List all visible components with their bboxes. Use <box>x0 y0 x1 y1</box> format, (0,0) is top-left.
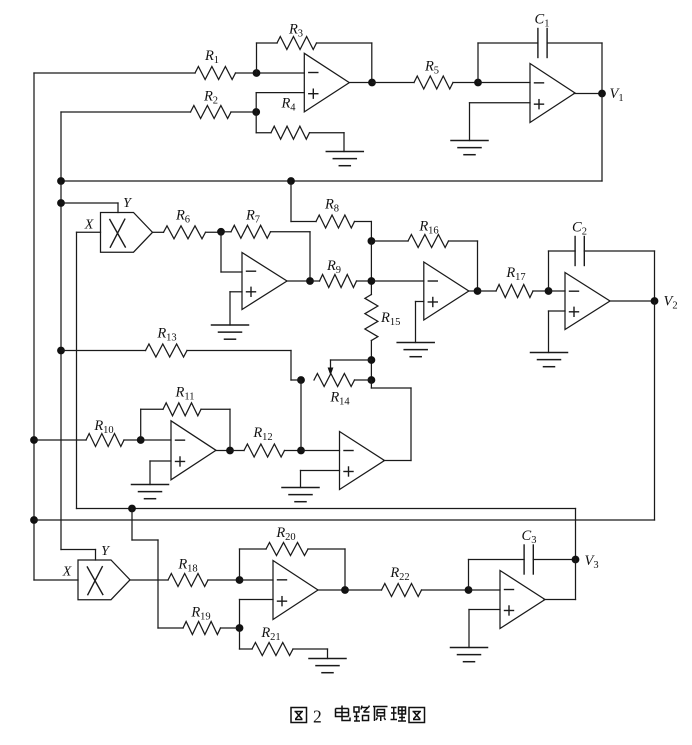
wire: U4 + to ground <box>416 302 424 343</box>
node: U5 inverting input <box>545 287 553 295</box>
node: V1 bus to R8 <box>287 177 295 185</box>
svg-text:2: 2 <box>313 707 322 727</box>
wire: R9 run <box>310 280 371 282</box>
node: Y input tap for multiplier M1 <box>57 199 65 207</box>
svg-text:R8: R8 <box>324 197 339 215</box>
wire: R21 branch <box>240 628 328 659</box>
wire: V2 rail left vertical (x=34) <box>33 73 35 580</box>
svg-text:V3: V3 <box>585 553 599 571</box>
label C3 <box>522 528 537 546</box>
node: U8 out/R20 <box>341 586 349 594</box>
label Y (M2) <box>101 544 111 559</box>
svg-text:R16: R16 <box>418 219 438 237</box>
resistor R10 <box>86 434 124 447</box>
svg-text:R3: R3 <box>288 22 303 40</box>
wire: M1 Y input <box>61 203 118 213</box>
wire: U4 output <box>469 290 478 292</box>
wire: U6 - stub <box>141 439 171 441</box>
svg-text:R13: R13 <box>156 326 176 344</box>
label R16 <box>418 219 438 237</box>
svg-text:X: X <box>62 565 72 580</box>
label C2 <box>572 220 587 238</box>
wire: U9 output <box>544 560 576 600</box>
svg-text:R19: R19 <box>190 605 210 623</box>
wire: R17 run <box>478 290 549 292</box>
label R14 <box>329 390 350 408</box>
wire: U9 + to ground <box>469 610 500 648</box>
node V1 <box>598 90 606 98</box>
label R17 <box>505 265 525 283</box>
svg-text:R17: R17 <box>505 265 525 283</box>
wire: C3 feedback left <box>469 560 525 591</box>
wire: R16 run <box>371 241 477 291</box>
svg-text:R18: R18 <box>177 557 197 575</box>
capacitor C1 <box>538 29 547 58</box>
node: R8/R16 junction <box>368 237 376 245</box>
node: R14 right terminal <box>368 376 376 384</box>
node: U9 inverting input <box>465 586 473 594</box>
wire: U2 + to ground <box>470 103 531 141</box>
wire: R2 run <box>61 111 256 113</box>
wire: U7 + to ground <box>301 471 340 488</box>
resistor R1 <box>195 67 236 80</box>
resistor R22 <box>382 584 422 597</box>
wire: R13 run <box>61 351 301 381</box>
capacitor C3 <box>524 545 533 574</box>
wire: R20 feedback <box>240 549 346 590</box>
wire: R7 feedback <box>221 232 310 281</box>
label C1 <box>535 12 550 30</box>
op-amp U2 (integrator) <box>530 64 575 123</box>
wire: C1 feedback right <box>547 43 602 94</box>
resistor R8 <box>316 215 355 228</box>
svg-text:R15: R15 <box>380 310 400 328</box>
node: V3 line to R19 branch <box>128 505 136 513</box>
resistor R15 (vertical) <box>365 295 378 341</box>
ground for U5 <box>531 353 568 367</box>
op-amp U9 (integrator) <box>500 571 545 629</box>
resistor R7 <box>231 225 271 238</box>
svg-text:V2: V2 <box>664 294 678 312</box>
svg-text:R21: R21 <box>260 625 280 643</box>
resistor R20 <box>266 543 308 556</box>
resistor R6 <box>164 226 206 239</box>
label R4 <box>280 96 296 114</box>
svg-text:R14: R14 <box>329 390 350 408</box>
node: U4 out/R16 <box>474 287 482 295</box>
resistor R13 <box>146 344 188 357</box>
label R12 <box>252 425 272 443</box>
label R10 <box>93 418 113 436</box>
wire: R19 branch <box>132 509 183 629</box>
wire: U5 + to ground <box>549 311 566 353</box>
label R13 <box>156 326 176 344</box>
resistor R16 <box>408 235 449 248</box>
op-amp U4 <box>424 262 469 320</box>
node: R9/U4 junction <box>368 277 376 285</box>
wire: V3 line (y=508.5) <box>77 508 576 510</box>
wire: V1 bus (y=181) <box>61 180 602 182</box>
ground for R21 <box>309 659 346 673</box>
wire: C1 feedback left <box>478 43 538 83</box>
node V2 <box>651 297 659 305</box>
node B: R2/R4 junction <box>252 108 260 116</box>
resistor R11 <box>163 403 201 416</box>
wire: R22 run <box>345 589 469 591</box>
wire: M1 X input <box>77 231 101 233</box>
op-amp U7 (follower) <box>340 432 385 490</box>
op-amp U8 <box>273 561 318 620</box>
node: U6 out/R11 <box>226 447 234 455</box>
wire: V1 rail down right side <box>601 94 603 182</box>
node: V1 bus to R2 rail <box>57 177 65 185</box>
wire: U3 output <box>287 280 310 282</box>
op-amp U5 (integrator) <box>565 273 610 330</box>
label R8 <box>324 197 339 215</box>
wire: V2 bus (y=520) <box>34 519 655 521</box>
resistor R14 (potentiometer) <box>314 374 371 387</box>
wire: M2 X input <box>34 579 78 581</box>
wire: R11 feedback <box>141 409 230 450</box>
wire: R5 run <box>372 82 478 84</box>
resistor R21 <box>252 643 293 656</box>
svg-text:R4: R4 <box>280 96 296 114</box>
ground for U4 <box>397 343 434 357</box>
wire: U5 - stub <box>549 290 566 292</box>
resistor R2 <box>191 106 232 119</box>
label X (M2) <box>62 565 72 580</box>
wire: U1 output <box>350 82 372 84</box>
wire: V2 rail right vertical <box>654 301 656 520</box>
resistor R4 <box>271 126 310 139</box>
svg-text:R1: R1 <box>204 48 219 66</box>
wire: U6 + to ground <box>150 461 171 485</box>
node: R19/R21 junction <box>236 624 244 632</box>
wire: M2 Y input <box>61 550 96 561</box>
node A: R1/R3 junction <box>253 69 261 77</box>
svg-text:R11: R11 <box>175 385 195 403</box>
wire: U6 output <box>216 450 230 452</box>
node: U3 out/R7 <box>306 277 314 285</box>
label R22 <box>389 565 409 583</box>
label R5 <box>424 59 439 77</box>
label V1 <box>610 86 624 104</box>
svg-text:R5: R5 <box>424 59 439 77</box>
label R9 <box>326 258 341 276</box>
label R2 <box>203 89 218 107</box>
wire: V3 rail (x=76.5) <box>76 232 78 508</box>
wire: V3 rail right vertical <box>575 509 577 560</box>
wire: R1 input run <box>34 72 304 74</box>
label R15 <box>380 310 400 328</box>
node: V1 bus to R13 <box>57 347 65 355</box>
label Y (M1) <box>123 196 133 211</box>
label R3 <box>288 22 303 40</box>
wire: C2 feedback right <box>584 251 654 301</box>
label R7 <box>245 208 260 226</box>
svg-text:R7: R7 <box>245 208 260 226</box>
svg-text:R9: R9 <box>326 258 341 276</box>
label R20 <box>275 525 295 543</box>
wire: R18 run <box>130 579 240 581</box>
wire: R10 run <box>34 439 141 441</box>
wire: R14 wiper <box>331 360 372 369</box>
wire: V1 rail middle segment <box>60 181 62 550</box>
node: U1 out/R3 <box>368 79 376 87</box>
node: R12/R14 junction <box>297 447 305 455</box>
resistor R5 <box>414 76 453 89</box>
resistor R12 <box>244 444 285 457</box>
node: U6 inverting node <box>137 436 145 444</box>
svg-text:R22: R22 <box>389 565 409 583</box>
wire: U8 - stub <box>240 579 274 581</box>
wire: R6 run <box>153 231 222 233</box>
ground for U3 <box>212 325 249 339</box>
resistor R19 <box>183 622 221 635</box>
wire: R3 feedback loop <box>257 43 372 83</box>
wire: U8 output <box>318 589 345 591</box>
svg-text:R6: R6 <box>175 208 190 226</box>
caption: 图2 电路原理图 <box>291 706 425 727</box>
wire: U5 output <box>610 300 655 302</box>
arrowhead of R14 wiper <box>328 368 334 376</box>
wire: R8 branch from V1 bus <box>291 181 316 222</box>
wire: U7 - stub <box>301 450 340 452</box>
node: R14 left terminal <box>297 376 305 384</box>
wire: U3 + to ground <box>230 292 242 325</box>
svg-text:C1: C1 <box>535 12 550 30</box>
op-amp U1 <box>304 53 349 112</box>
op-amp U3 <box>242 253 287 310</box>
label R19 <box>190 605 210 623</box>
svg-text:R2: R2 <box>203 89 218 107</box>
node: U3 inverting node <box>217 228 225 236</box>
wire: U2 - stub <box>478 82 530 84</box>
wire: U9 - stub <box>469 589 501 591</box>
svg-text:Y: Y <box>123 196 133 211</box>
ground for U9 <box>451 648 488 662</box>
resistor R18 <box>168 574 208 587</box>
wire: R15 to wiper node <box>370 341 372 381</box>
label R11 <box>175 385 195 403</box>
node: U2 inverting input <box>474 79 482 87</box>
wire: U1 + input <box>256 93 304 112</box>
svg-text:C2: C2 <box>572 220 587 238</box>
svg-text:Y: Y <box>101 544 111 559</box>
label X (M1) <box>84 218 94 233</box>
wire: summing column <box>370 241 372 295</box>
multiplier M2 <box>78 560 130 600</box>
multiplier M1 <box>101 213 153 253</box>
label R6 <box>175 208 190 226</box>
svg-text:V1: V1 <box>610 86 624 104</box>
label V3 <box>585 553 599 571</box>
wire: C2 feedback left <box>549 251 576 291</box>
wire: R14 left leg <box>300 380 302 451</box>
capacitor C2 <box>575 237 584 266</box>
node: U8 inverting node <box>236 576 244 584</box>
resistor R17 <box>496 285 533 298</box>
wire: R8 to summing column <box>355 222 372 242</box>
wire: R12 run <box>230 450 301 452</box>
label R21 <box>260 625 280 643</box>
wire: U3 - input <box>221 232 242 272</box>
node: V2 rail to R10 <box>30 436 38 444</box>
ground for U6 <box>132 485 169 499</box>
wire: U8 + input <box>240 600 274 629</box>
wire: R19 to node <box>221 627 240 629</box>
wire: U4 - stub <box>371 280 423 282</box>
svg-text:R10: R10 <box>93 418 113 436</box>
resistor R9 <box>320 275 357 288</box>
svg-text:R20: R20 <box>275 525 295 543</box>
svg-text:C3: C3 <box>522 528 537 546</box>
label V2 <box>664 294 678 312</box>
ground for R4 <box>326 152 363 166</box>
node V3 <box>572 556 580 564</box>
svg-text:R12: R12 <box>252 425 272 443</box>
op-amp U6 <box>171 421 216 480</box>
resistor R3 <box>277 37 317 50</box>
node: wiper junction <box>368 356 376 364</box>
ground for U2 <box>451 141 488 155</box>
node: V2 rail to V2 bus <box>30 516 38 524</box>
wire: C3 feedback right <box>533 559 575 561</box>
wire: R4 branch <box>256 112 344 152</box>
label R1 <box>204 48 219 66</box>
label R18 <box>177 557 197 575</box>
wire: V1 rail to R2 <box>60 112 62 181</box>
wire: U2 output <box>574 93 602 95</box>
wire: U7 feedback loop <box>371 380 411 461</box>
svg-text:X: X <box>84 218 94 233</box>
ground for U7 <box>282 488 319 502</box>
